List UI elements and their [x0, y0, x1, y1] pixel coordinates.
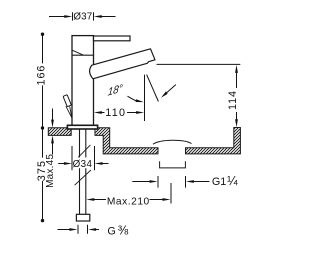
svg-text:Ø34: Ø34 — [73, 159, 93, 170]
svg-text:110: 110 — [105, 107, 126, 119]
svg-text:G⅜: G⅜ — [107, 224, 128, 238]
svg-text:Max.210: Max.210 — [107, 196, 150, 207]
svg-text:G1¼: G1¼ — [212, 174, 238, 188]
svg-text:Max.45: Max.45 — [45, 154, 56, 188]
svg-text:Ø37: Ø37 — [73, 12, 92, 23]
svg-text:166: 166 — [35, 65, 47, 86]
svg-text:114: 114 — [227, 90, 239, 110]
